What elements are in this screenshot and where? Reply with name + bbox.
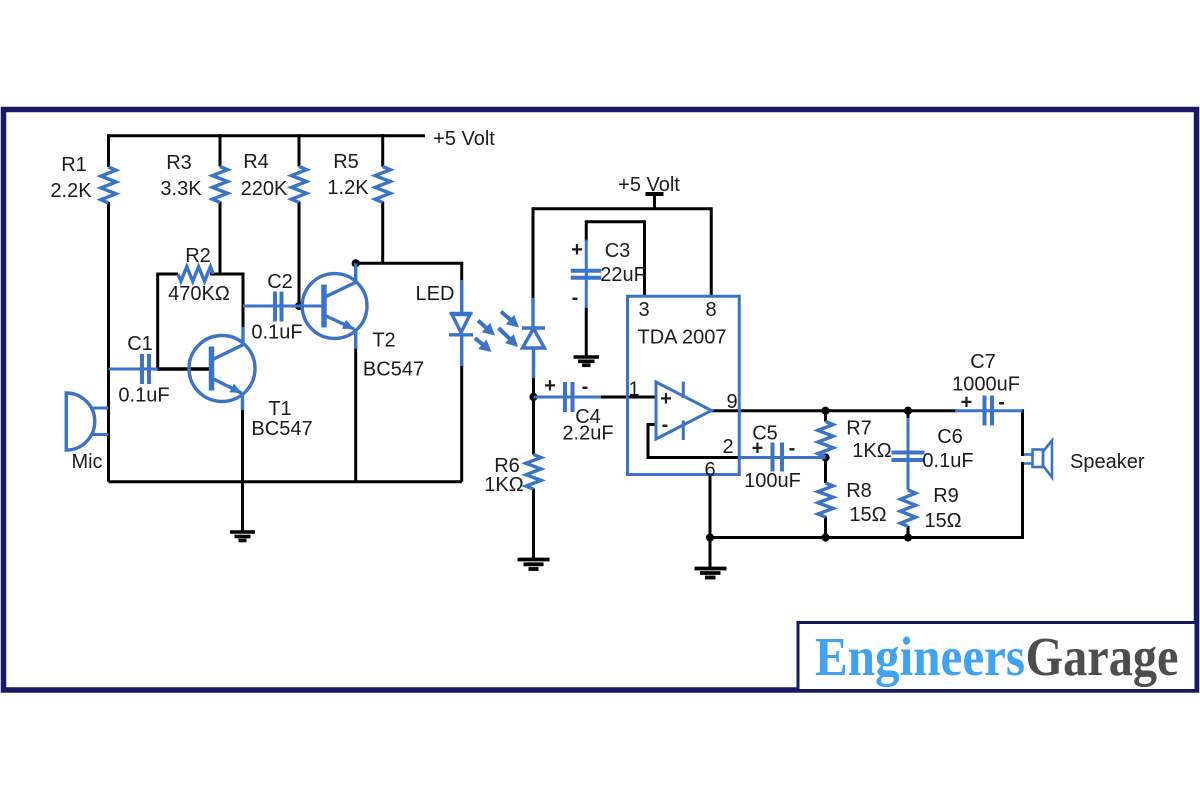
- svg-text:2.2uF: 2.2uF: [562, 423, 613, 445]
- svg-text:2.2K: 2.2K: [50, 180, 92, 202]
- junction pin6 on bottom rail: [707, 535, 712, 540]
- wire T1 emitter down to ground: [241, 409, 244, 532]
- svg-text:220K: 220K: [241, 178, 288, 200]
- wire T1 collector node vertical: [242, 274, 245, 329]
- wire T2 collector stub: [354, 262, 357, 266]
- junction C5-R7-R8 node: [823, 455, 828, 460]
- wire R4 top lead: [298, 134, 301, 166]
- svg-text:0.1uF: 0.1uF: [922, 450, 973, 472]
- wire speaker to ground rail: [1021, 462, 1024, 539]
- svg-text:3: 3: [638, 299, 649, 321]
- svg-text:1KΩ: 1KΩ: [852, 440, 891, 462]
- junction C4 tap on photodiode line: [531, 394, 536, 399]
- svg-text:R5: R5: [333, 151, 359, 173]
- svg-text:-: -: [998, 392, 1005, 414]
- wire C3 inner loop top: [586, 220, 644, 223]
- wire R6 bottom to ground: [532, 489, 535, 559]
- svg-text:TDA 2007: TDA 2007: [638, 327, 727, 349]
- wire C6 top stub: [907, 411, 910, 420]
- junction R7 on output line: [823, 408, 828, 413]
- svg-text:BC547: BC547: [363, 359, 424, 381]
- wire R7 bottom stub: [824, 456, 827, 459]
- transistor T2: [302, 263, 367, 348]
- ground G2 below C3: [574, 357, 600, 365]
- svg-text:100uF: 100uF: [744, 470, 801, 492]
- capacitor C5: [738, 443, 826, 472]
- svg-text:R2: R2: [185, 245, 211, 267]
- svg-text:8: 8: [705, 299, 716, 321]
- light arrow 3: [501, 312, 519, 328]
- wire R3 bottom lead to R2 node: [219, 202, 222, 275]
- wire R8 bottom lead: [824, 517, 827, 538]
- svg-text:470KΩ: 470KΩ: [168, 283, 230, 305]
- wire bottom-right ground rail: [710, 536, 1024, 539]
- light arrow 4: [499, 328, 519, 347]
- wire R3 top lead: [219, 134, 222, 166]
- svg-text:Engineers: Engineers: [815, 626, 1025, 687]
- border frame (decorative): [4, 110, 1197, 691]
- wire pin 8 vertical: [710, 207, 713, 296]
- wire R9 bottom lead: [907, 526, 910, 538]
- wire LED bottom lead to rail: [460, 365, 463, 482]
- microphone Mic: [66, 393, 108, 450]
- light arrow 2: [475, 338, 492, 352]
- capacitor C3: [571, 240, 602, 309]
- svg-text:-: -: [789, 438, 796, 460]
- svg-text:0.1uF: 0.1uF: [118, 385, 169, 407]
- wire pin 3 vertical: [643, 220, 646, 296]
- svg-text:6: 6: [704, 459, 715, 481]
- speaker LS1: [1024, 441, 1052, 478]
- svg-text:R3: R3: [166, 152, 192, 174]
- svg-text:LED: LED: [416, 283, 455, 305]
- resistor R2 (horizontal): [178, 267, 213, 282]
- svg-text:9: 9: [726, 391, 737, 413]
- junction R8 on bottom rail: [823, 535, 828, 540]
- svg-text:+5 Volt: +5 Volt: [433, 128, 495, 150]
- capacitor C2: [243, 292, 322, 322]
- svg-text:Garage: Garage: [1026, 626, 1179, 687]
- wire R1 top lead: [107, 134, 110, 167]
- wire op-amp output pin 9: [711, 409, 957, 412]
- logo (decorative): [798, 623, 1196, 691]
- capacitor C1: [109, 354, 158, 384]
- svg-text:R7: R7: [846, 418, 872, 440]
- resistor R9: [900, 490, 915, 526]
- wire LED top lead: [460, 262, 463, 282]
- svg-text:T2: T2: [372, 330, 395, 352]
- svg-text:+5 Volt: +5 Volt: [618, 174, 680, 196]
- op-amp U1 triangle: [656, 382, 712, 441]
- wire op-amp inverting feedback: [648, 425, 740, 458]
- svg-text:T1: T1: [268, 398, 291, 420]
- wire T2 emitter down to rail: [354, 347, 357, 482]
- svg-text:-: -: [572, 287, 579, 309]
- wire C7 right corner down to speaker: [1021, 409, 1024, 456]
- wire R4 bottom lead to T2 base node: [298, 202, 301, 307]
- wire R2 right lead to R3 node: [210, 273, 245, 276]
- junction R9 on bottom rail: [905, 535, 910, 540]
- LED D1: [449, 280, 473, 366]
- light arrow 1: [478, 321, 495, 336]
- svg-text:1KΩ: 1KΩ: [484, 474, 523, 496]
- power +5V T-bar: [646, 192, 664, 196]
- svg-text:C3: C3: [605, 240, 631, 262]
- wire R7 top stub: [824, 411, 827, 422]
- wire photodiode to C4 node to R6: [532, 377, 535, 455]
- wire R2 node down to T1 base node: [156, 274, 159, 371]
- svg-text:R9: R9: [933, 485, 959, 507]
- svg-text:+: +: [571, 239, 583, 261]
- svg-text:+: +: [961, 392, 973, 414]
- svg-text:+: +: [752, 438, 764, 460]
- wire R5 top lead: [381, 134, 384, 166]
- wire pin 1 input: [600, 396, 656, 399]
- wire photodiode branch top: [532, 207, 535, 300]
- svg-text:+: +: [660, 388, 672, 410]
- resistor R1: [101, 167, 116, 203]
- svg-text:BC547: BC547: [251, 418, 312, 440]
- svg-text:15Ω: 15Ω: [849, 504, 886, 526]
- svg-text:+: +: [544, 375, 556, 397]
- transistor T1: [189, 327, 255, 410]
- svg-text:C1: C1: [127, 333, 153, 355]
- ground G1 below T1 emitter: [230, 532, 255, 541]
- svg-text:Speaker: Speaker: [1070, 451, 1145, 473]
- capacitor C4: [534, 382, 602, 412]
- resistor R8: [818, 483, 833, 517]
- wire pin 6 down to ground: [709, 475, 712, 568]
- junction R4 on T2 base: [296, 303, 301, 308]
- svg-text:-: -: [582, 376, 589, 398]
- resistor R5: [375, 167, 390, 203]
- svg-text:R4: R4: [243, 151, 269, 173]
- svg-text:C2: C2: [267, 271, 293, 293]
- wire +5V top rail: [109, 134, 426, 137]
- svg-text:R1: R1: [61, 154, 87, 176]
- ground G3 below R6: [518, 560, 550, 570]
- capacitor C7: [955, 396, 1023, 426]
- svg-text:C6: C6: [937, 426, 963, 448]
- svg-text:C7: C7: [970, 351, 996, 373]
- wire +5V mid rail: [533, 207, 712, 210]
- resistor R3: [212, 167, 227, 203]
- resistor R7: [818, 422, 833, 457]
- svg-text:22uF: 22uF: [600, 264, 646, 286]
- resistor R4: [291, 167, 306, 203]
- svg-text:Mic: Mic: [71, 451, 102, 473]
- photodiode D2: [522, 298, 545, 378]
- svg-text:1.2K: 1.2K: [327, 177, 369, 199]
- svg-text:R8: R8: [846, 480, 872, 502]
- svg-text:-: -: [662, 414, 669, 436]
- svg-text:0.1uF: 0.1uF: [251, 322, 302, 344]
- wire R2 left lead: [156, 273, 178, 276]
- wire T2 collector rail to LED: [356, 262, 464, 265]
- wire R5 bottom lead: [381, 202, 384, 264]
- junction C6 on output line: [905, 408, 910, 413]
- IC U1 TDA2007 package box: [628, 296, 740, 474]
- wire C3 bottom to ground: [585, 307, 588, 357]
- wire R8 top stub: [824, 458, 827, 484]
- junction T2 collector on LED rail: [353, 261, 358, 266]
- capacitor C6: [892, 418, 925, 490]
- resistor R6: [526, 455, 541, 490]
- wire C3 top black lead: [585, 220, 588, 241]
- svg-text:15Ω: 15Ω: [924, 510, 961, 532]
- wire C1 to T1 base: [156, 367, 214, 371]
- wire R1 bottom / mic branch vertical: [107, 202, 110, 482]
- ground G4 below pin 6: [695, 569, 727, 578]
- svg-text:3.3K: 3.3K: [160, 178, 202, 200]
- svg-text:2: 2: [722, 436, 733, 458]
- wire bottom-left ground rail: [109, 480, 462, 483]
- wire +5V stub: [653, 194, 656, 210]
- svg-text:1: 1: [628, 379, 639, 401]
